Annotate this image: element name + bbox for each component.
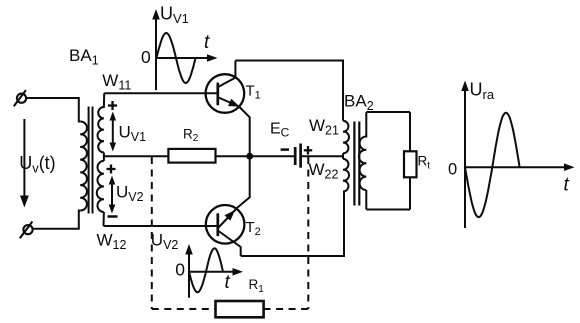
wire battery to BA2 center tap bbox=[302, 155, 343, 157]
T1 emitter bbox=[219, 98, 250, 157]
input terminal bottom bbox=[20, 222, 33, 239]
wire top terminal to BA1 primary bbox=[27, 98, 81, 122]
double arrow UV1 bbox=[110, 112, 117, 152]
BA1 secondary center tap join bbox=[103, 153, 105, 161]
battery EC plus sign bbox=[304, 146, 312, 154]
transformer BA1 secondary W12 winding bbox=[97, 161, 104, 226]
load loop right bottom bbox=[409, 177, 411, 209]
double arrow UV2 bbox=[109, 176, 116, 214]
polarity + of W12 bbox=[107, 165, 116, 174]
transistor T2 bbox=[206, 205, 245, 244]
BA2 primary tap join bbox=[342, 153, 344, 159]
transistor T1 bbox=[206, 74, 245, 113]
feedback dashed left vertical bbox=[151, 157, 153, 309]
resistor R1 bbox=[216, 301, 264, 317]
wire bottom terminal to BA1 primary bbox=[33, 211, 80, 229]
svg-text:0: 0 bbox=[141, 47, 151, 67]
wire W12 to T2 base bbox=[104, 225, 218, 227]
plot UV2: horizontal axis bbox=[189, 268, 243, 276]
wire center tap to R2 bbox=[104, 155, 168, 157]
polarity - of W12 bbox=[108, 215, 118, 218]
plot Ura: horizontal axis bbox=[465, 163, 575, 171]
svg-text:t: t bbox=[564, 175, 570, 196]
svg-text:t: t bbox=[204, 32, 210, 53]
battery EC minus sign bbox=[281, 148, 289, 151]
plot UV1: vertical axis bbox=[152, 9, 160, 90]
feedback dashed bottom right bbox=[264, 308, 309, 310]
transformer BA1 primary winding bbox=[80, 121, 87, 210]
plot UV1: horizontal axis bbox=[156, 54, 218, 62]
resistor R2 bbox=[168, 149, 215, 163]
resistor Rt bbox=[404, 151, 417, 177]
plot UV1: sine wave bbox=[157, 33, 196, 83]
battery EC long plate bbox=[299, 144, 302, 168]
transformer BA2 primary W22 winding bbox=[343, 159, 349, 192]
load loop right top bbox=[409, 112, 411, 151]
transformer BA2 secondary winding bbox=[359, 112, 366, 210]
plot Ura: vertical axis bbox=[461, 81, 469, 229]
plot UV2: vertical axis bbox=[185, 244, 193, 298]
T2 collector bbox=[219, 231, 241, 256]
svg-text:0: 0 bbox=[448, 161, 457, 179]
transformer BA1 secondary W11 winding bbox=[98, 93, 105, 152]
T2 emitter (up to node) bbox=[219, 156, 250, 227]
arrow Uv(t) bbox=[20, 119, 29, 208]
input terminal top bbox=[14, 90, 26, 106]
transformer BA2 core bbox=[354, 122, 359, 206]
bottom rail T2 collector to BA2 bbox=[241, 192, 344, 256]
wire R2 to node bbox=[216, 155, 295, 157]
T1 base bar bbox=[216, 83, 219, 106]
battery EC short plate bbox=[294, 147, 297, 165]
load loop top wire bbox=[366, 111, 410, 113]
T1 collector bbox=[219, 61, 236, 87]
transformer BA2 primary W21 winding bbox=[343, 121, 349, 154]
feedback dashed right vertical bbox=[307, 157, 309, 309]
plot Ura: sine wave bbox=[465, 113, 520, 218]
top rail T1 collector to BA2 bbox=[235, 61, 343, 121]
feedback dashed bottom left bbox=[152, 308, 216, 310]
load loop bottom wire bbox=[366, 209, 410, 211]
plot UV2: sine wave bbox=[189, 248, 223, 292]
polarity + of W11 bbox=[108, 101, 117, 110]
node junction dot bbox=[246, 153, 253, 160]
svg-text:t: t bbox=[225, 272, 231, 293]
T2 base bar bbox=[216, 213, 219, 236]
wire W11 to T1 base bbox=[104, 92, 218, 94]
svg-text:0: 0 bbox=[175, 260, 185, 280]
transformer BA1 core bbox=[89, 107, 93, 214]
